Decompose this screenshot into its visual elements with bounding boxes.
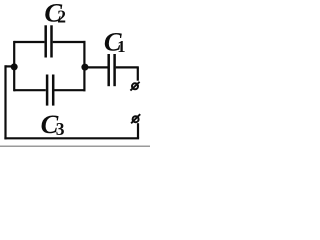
svg-text:3: 3	[56, 119, 65, 139]
svg-text:1: 1	[117, 37, 125, 56]
svg-text:2: 2	[57, 7, 66, 27]
